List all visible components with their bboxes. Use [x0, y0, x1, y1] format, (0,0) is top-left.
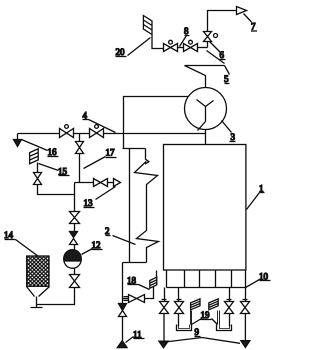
- arrow 11 (filled): [117, 341, 127, 348]
- svg-text:5: 5: [224, 74, 229, 84]
- wire column drain: [122, 263, 124, 304]
- svg-text:20: 20: [116, 47, 126, 57]
- svg-text:16: 16: [48, 147, 58, 157]
- pipe P2: [178, 288, 180, 302]
- valve P5: [241, 302, 250, 314]
- wire flag18 to tank: [156, 271, 158, 278]
- seal cup right (19): [217, 325, 232, 331]
- column 2 wall: [123, 149, 146, 263]
- svg-text:17: 17: [106, 148, 116, 158]
- flange ticks valve18: [124, 297, 129, 301]
- wire flag20 stem to pipe: [152, 35, 164, 49]
- label 16: [22, 140, 59, 158]
- label 3: [222, 121, 236, 143]
- fan circle 3: [185, 88, 227, 130]
- flag 19a: [191, 299, 200, 310]
- svg-text:8: 8: [184, 26, 189, 36]
- label 17: [84, 148, 117, 169]
- column bottom: [123, 262, 147, 264]
- svg-text:14: 14: [4, 230, 14, 240]
- check valve drain: [119, 304, 127, 311]
- valve (vertical) below T: [76, 142, 84, 154]
- valve 6 (vertical with handwheel): [204, 32, 212, 42]
- svg-text:9: 9: [195, 327, 200, 337]
- wire flag15 stem: [37, 163, 39, 173]
- check valve: [70, 232, 78, 238]
- label 8: [180, 26, 190, 47]
- seal cup left (19): [177, 325, 192, 331]
- pipe P1: [164, 288, 166, 302]
- wire valve to arrow: [108, 182, 114, 184]
- label 12: [82, 240, 103, 255]
- arrow 13 (open): [114, 179, 121, 187]
- svg-text:7: 7: [251, 22, 256, 32]
- flag 19b: [209, 299, 218, 310]
- valve P2: [175, 302, 184, 314]
- wire riser to top: [208, 11, 237, 48]
- wire T-stub down: [79, 134, 81, 142]
- pipe P4: [229, 288, 231, 302]
- wire P2 into seal cup: [178, 314, 180, 327]
- label 9: [195, 327, 201, 337]
- wire: [74, 245, 76, 252]
- valve above check: [70, 212, 80, 224]
- wire upper bypass: [124, 97, 189, 149]
- svg-text:13: 13: [84, 198, 94, 208]
- discharge arrow 16: [17, 134, 19, 140]
- wire main pipe: [18, 133, 206, 135]
- wire pump suction: [37, 288, 75, 305]
- flag 20 (hatched instrument): [143, 16, 152, 35]
- label 20: [116, 38, 151, 58]
- label 7: [244, 14, 258, 32]
- vessel 14: [27, 256, 49, 286]
- valve 8a: [164, 44, 178, 52]
- valve 18: [129, 295, 145, 303]
- wire fan outlet to tank: [205, 130, 207, 145]
- label 18: [127, 276, 150, 290]
- wire branch 13: [75, 182, 94, 184]
- flange ticks: [162, 299, 248, 301]
- wire between valves 8: [178, 47, 184, 49]
- arrow to 7 (open): [237, 7, 247, 15]
- wire to flag 18: [145, 287, 154, 299]
- wire drain lower: [122, 317, 124, 342]
- label 14: [4, 230, 39, 257]
- svg-text:2: 2: [105, 226, 110, 236]
- trench lines 9: [165, 338, 240, 344]
- flag 19a riser: [191, 311, 192, 325]
- serpentine coil: [135, 149, 159, 263]
- flag 18 (hatched): [150, 277, 157, 288]
- wire vertical pump line upper: [74, 183, 76, 212]
- label 6: [210, 42, 226, 61]
- wire to pump line: [38, 185, 75, 195]
- label 10: [246, 272, 271, 288]
- valve 4a: [60, 129, 74, 138]
- flag 19b riser: [218, 311, 220, 325]
- valve P1: [160, 302, 169, 314]
- wire: [74, 224, 76, 232]
- valve below flag15: [34, 173, 42, 185]
- pump 12: [64, 251, 81, 268]
- svg-text:12: 12: [92, 240, 101, 250]
- pipe P5: [245, 288, 247, 302]
- svg-text:3: 3: [231, 132, 236, 142]
- wire P4 into seal cup: [229, 314, 231, 327]
- valve 4b: [90, 129, 104, 138]
- valve below pump: [70, 275, 80, 288]
- distributor boxes under tank: [167, 271, 246, 288]
- wire P1 down: [163, 314, 165, 342]
- svg-text:19: 19: [201, 310, 211, 320]
- label 15: [39, 164, 70, 177]
- vessel stand: [31, 297, 43, 308]
- valve P4: [225, 302, 234, 314]
- wire branch 18: [123, 298, 129, 300]
- valve 13: [94, 179, 108, 187]
- label 2: [105, 226, 136, 245]
- label 13: [84, 187, 116, 209]
- label 4: [83, 111, 116, 133]
- arrow left trench (filled): [159, 341, 168, 348]
- label 11: [126, 330, 145, 343]
- wire valve8b to riser: [198, 47, 208, 49]
- label 19: [192, 310, 218, 325]
- wire: [74, 269, 76, 275]
- valve 8b: [184, 44, 198, 52]
- label 1: [247, 184, 265, 210]
- arrow right trench (filled): [241, 341, 250, 348]
- break symbol 5 (z-fold): [185, 51, 225, 88]
- wire P5 down: [244, 314, 246, 341]
- wire down to branch: [79, 154, 81, 183]
- tank 1: [164, 145, 246, 271]
- flag 15 (hatched instrument): [30, 149, 39, 164]
- label 5: [224, 66, 230, 85]
